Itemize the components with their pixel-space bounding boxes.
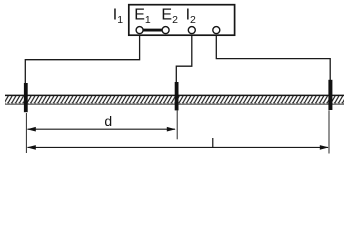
svg-text:d: d — [104, 113, 112, 129]
svg-text:l: l — [211, 136, 214, 151]
